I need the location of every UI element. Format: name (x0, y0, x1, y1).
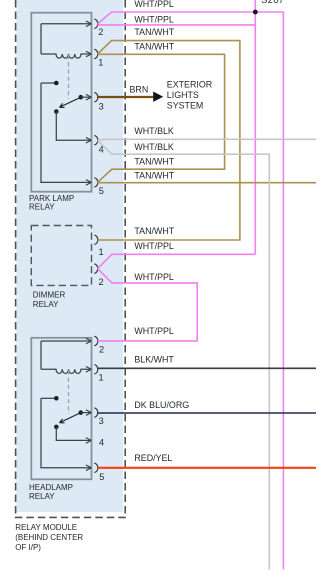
svg-text:TAN/WHT: TAN/WHT (134, 27, 174, 37)
wire park pin3 stub (81, 96, 87, 98)
pin numbers dimmer relay (99, 247, 104, 287)
wire TAN/WHT pin1 to dimmer pin1 (98, 41, 240, 240)
dimmer relay box (31, 226, 91, 286)
label HEADLAMP RELAY (29, 483, 73, 501)
mechanical link park relay (68, 55, 70, 99)
coil headlamp relay (41, 369, 87, 373)
wire WHT/PPL S267 vertical (254, 0, 256, 254)
svg-text:TAN/WHT: TAN/WHT (134, 42, 174, 52)
node park contact b (79, 95, 84, 100)
svg-text:WHT/PPL: WHT/PPL (134, 0, 174, 9)
node headlamp pivot (54, 425, 59, 430)
svg-text:TAN/WHT: TAN/WHT (134, 226, 174, 236)
svg-text:WHT/PPL: WHT/PPL (134, 326, 174, 336)
label DIMMER RELAY (33, 290, 66, 309)
arrow to exterior lights system (153, 92, 163, 102)
svg-text:S267: S267 (261, 0, 284, 5)
pin arrows park relay (86, 21, 91, 185)
svg-text:HEADLAMP: HEADLAMP (29, 483, 73, 492)
pin sockets park relay (94, 19, 98, 187)
wire headlamp pivot to pin4 (56, 427, 87, 441)
relay module (behind center of I/P) fill (16, 0, 123, 512)
wire WHT/PPL pin2 to S267 (98, 12, 284, 570)
wire park pin2 internal (41, 23, 87, 25)
node park contact a (54, 81, 59, 86)
svg-text:(BEHIND CENTER: (BEHIND CENTER (15, 533, 83, 542)
svg-text:2: 2 (98, 27, 103, 37)
svg-text:WHT/BLK: WHT/BLK (134, 142, 174, 152)
svg-text:WHT/BLK: WHT/BLK (134, 126, 174, 136)
park lamp relay box (31, 13, 91, 192)
svg-text:WHT/PPL: WHT/PPL (134, 272, 174, 282)
wire RED/YEL headlamp pin5 (98, 467, 316, 469)
svg-text:WHT/PPL: WHT/PPL (134, 241, 174, 251)
svg-text:5: 5 (99, 186, 104, 196)
svg-text:RED/YEL: RED/YEL (134, 453, 172, 463)
wire headlamp left vertical to pin5 (41, 398, 87, 468)
svg-text:4: 4 (99, 437, 104, 447)
svg-text:WHT/PPL: WHT/PPL (134, 14, 174, 24)
wire labels column (134, 0, 189, 463)
node headlamp contact a (54, 396, 59, 401)
wire headlamp switch common (41, 397, 55, 399)
pin sockets headlamp relay (94, 336, 98, 472)
coil park lamp relay (41, 54, 87, 58)
wire WHT/BLK pin4 lower (98, 140, 270, 569)
pin arrows headlamp relay (86, 338, 91, 470)
svg-text:DK BLU/ORG: DK BLU/ORG (134, 400, 189, 410)
splice S267 (253, 10, 258, 15)
pin numbers headlamp relay (99, 344, 105, 482)
svg-text:2: 2 (99, 344, 104, 354)
relay module dashed border (15, 0, 126, 518)
mechanical link headlamp relay (68, 370, 70, 414)
svg-text:3: 3 (99, 416, 104, 426)
svg-text:LIGHTS: LIGHTS (167, 90, 199, 100)
label RELAY MODULE (BEHIND CENTER OF I/P) (15, 523, 83, 552)
label EXTERIOR LIGHTS SYSTEM (167, 80, 212, 111)
pin sockets dimmer relay (94, 235, 98, 273)
svg-text:5: 5 (99, 472, 104, 482)
svg-text:BLK/WHT: BLK/WHT (134, 354, 174, 364)
wire park pivot to pin4 (56, 112, 87, 141)
node park pivot (54, 109, 59, 114)
switch arm park relay (60, 97, 81, 107)
node headlamp contact b (79, 410, 84, 415)
wire TAN/WHT pin5 straight (98, 182, 316, 184)
wire headlamp pin2 internal (41, 340, 87, 342)
wire BRN pin3 (98, 96, 154, 98)
wire park left vertical coil feed (40, 24, 42, 54)
svg-text:RELAY MODULE: RELAY MODULE (15, 523, 77, 532)
headlamp relay box (31, 338, 91, 480)
wire headlamp pin3 stub (81, 412, 87, 414)
svg-text:TAN/WHT: TAN/WHT (134, 157, 174, 167)
wire WHT/BLK pin4 upper (98, 138, 316, 141)
svg-text:1: 1 (98, 57, 103, 67)
svg-text:2: 2 (99, 277, 104, 287)
wire BLK/WHT headlamp pin1 (98, 367, 316, 369)
svg-text:EXTERIOR: EXTERIOR (167, 80, 212, 90)
pin numbers park relay (98, 27, 104, 196)
svg-text:RELAY: RELAY (29, 203, 55, 212)
svg-text:3: 3 (99, 101, 104, 111)
wire park left vertical to pin5 (41, 83, 87, 182)
wire park switch common (41, 82, 55, 84)
switch arm headlamp relay (60, 413, 81, 423)
svg-text:1: 1 (99, 247, 104, 257)
wire WHT/PPL dimmer pin2 upper (98, 254, 256, 268)
svg-text:OF I/P): OF I/P) (15, 543, 41, 552)
svg-text:BRN: BRN (130, 84, 149, 94)
svg-text:TAN/WHT: TAN/WHT (134, 171, 174, 181)
label PARK LAMP RELAY (29, 194, 74, 212)
svg-text:DIMMER: DIMMER (33, 290, 66, 299)
wire WHT/PPL dimmer pin2 to headlamp pin2 (98, 269, 198, 341)
wire headlamp left vertical coil feed (40, 341, 42, 369)
svg-text:SYSTEM: SYSTEM (167, 101, 204, 111)
svg-text:1: 1 (99, 373, 104, 383)
wire DK BLU/ORG headlamp pin3 (98, 412, 316, 414)
svg-text:RELAY: RELAY (33, 300, 59, 309)
wire TAN/WHT pin1 to pin5 link (98, 54, 225, 182)
svg-text:RELAY: RELAY (29, 492, 55, 501)
wire WHT/PPL pin2 straight (98, 24, 256, 26)
